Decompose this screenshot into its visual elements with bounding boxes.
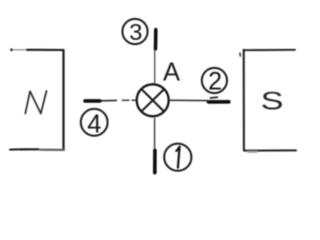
svg-text:3: 3	[129, 19, 142, 45]
magnet S pole bracket	[240, 50, 296, 152]
svg-text:S: S	[261, 88, 284, 116]
option circle 3	[122, 19, 147, 45]
arrow down (option 1 direction)	[153, 118, 156, 175]
label N (italic)	[25, 91, 46, 114]
svg-text:4: 4	[87, 110, 101, 138]
conductor A: circle with X (current into page)	[137, 84, 169, 116]
svg-text:A: A	[163, 59, 180, 87]
option circle 4	[81, 109, 108, 138]
svg-text:2: 2	[208, 68, 222, 96]
option circle 2	[202, 68, 227, 96]
magnet N pole bracket	[10, 48, 64, 150]
arrow left (option 4 direction)	[83, 99, 136, 102]
arrow up (option 3 direction)	[154, 28, 157, 84]
option circle 1	[164, 144, 191, 171]
arrow right (option 2 direction)	[170, 97, 231, 103]
